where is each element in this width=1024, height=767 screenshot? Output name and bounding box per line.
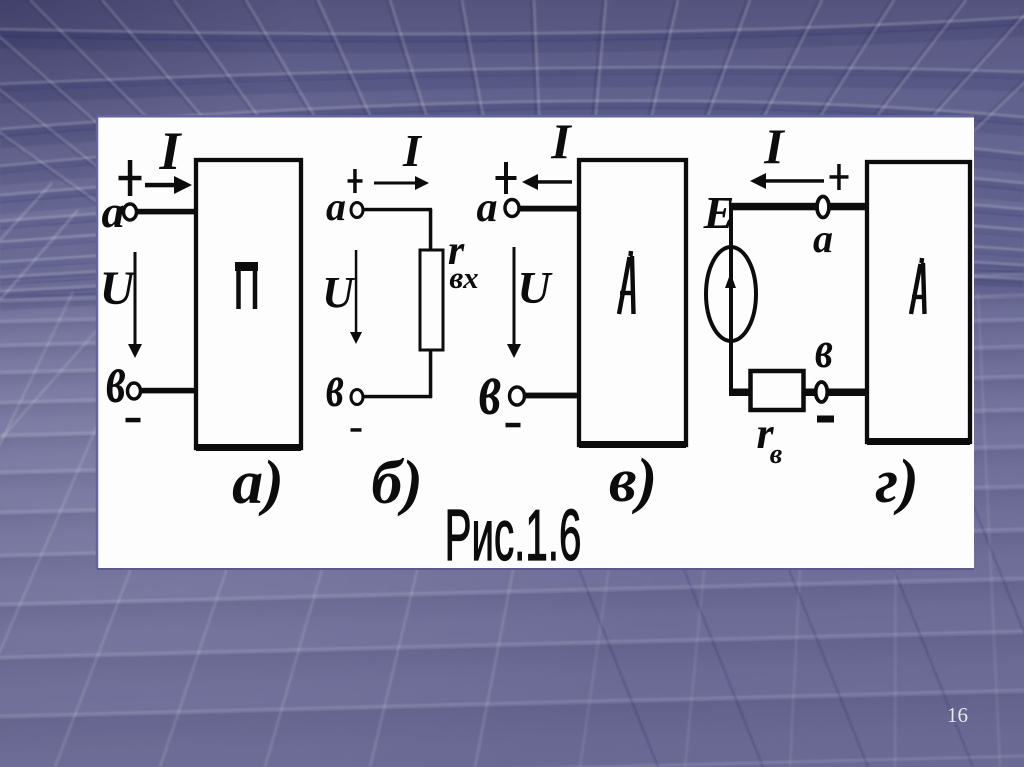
wire a to corner (б): [363, 208, 432, 212]
terminal circle a (в): [505, 200, 519, 217]
svg-text:в: в: [106, 340, 126, 418]
svg-text:I: I: [763, 118, 785, 174]
svg-text:U: U: [322, 268, 356, 317]
amplifier box A (г): [867, 162, 970, 442]
terminal circle в (г): [816, 382, 828, 402]
left wire E down (г): [729, 207, 733, 392]
circuit a) converter box П: [196, 160, 301, 448]
voltage arrow down (в): [513, 247, 516, 344]
plus sign (г): [830, 175, 849, 179]
white panel: [97, 115, 974, 570]
wire resistor to corner (б): [429, 350, 433, 398]
resistor r_в: [751, 371, 804, 410]
svg-text:I: I: [402, 125, 423, 176]
svg-text:I: I: [158, 121, 182, 181]
resistor r_вх: [420, 250, 443, 350]
svg-text:Рис.1.6: Рис.1.6: [445, 496, 582, 576]
plus sign (в): [496, 176, 517, 180]
svg-text:в: в: [479, 347, 501, 431]
wire в to box (в): [524, 393, 581, 399]
svg-text:в: в: [326, 354, 344, 420]
wire в to corner (б): [363, 395, 432, 399]
wire resistor to circle (г): [803, 389, 817, 397]
letter П inside box: [239, 266, 256, 309]
dark bevel companions (ceiling radials): [0, 0, 1024, 292]
floor band shading: [0, 268, 1024, 767]
EMF arrow up: [729, 259, 732, 319]
svg-text:16: 16: [947, 703, 968, 727]
svg-text:в): в): [609, 447, 657, 515]
svg-text:U: U: [517, 262, 553, 313]
svg-text:a: a: [813, 216, 833, 261]
svg-text:г): г): [875, 448, 919, 516]
wire corner down to resistor (б): [429, 209, 433, 252]
letter A inside box (г): [911, 258, 925, 314]
svg-text:вх: вх: [449, 260, 478, 295]
terminal circle в (б): [351, 390, 363, 405]
current arrow right (a): [145, 183, 174, 188]
svg-text:a: a: [102, 186, 125, 237]
wire a to box (a): [136, 209, 198, 215]
current arrow left (г): [766, 179, 824, 183]
wire a to box (в): [519, 206, 581, 212]
bottom wire to resistor (г): [729, 389, 753, 397]
minus sign (a): [126, 418, 141, 423]
svg-text:U: U: [100, 262, 137, 315]
ceiling grid: [0, 0, 1024, 300]
svg-text:в: в: [815, 322, 833, 379]
terminal circle a (a): [124, 204, 137, 220]
floor grid: [0, 274, 1024, 767]
plus sign (б): [348, 179, 363, 183]
minus sign (г): [817, 416, 834, 423]
current arrow right (б): [374, 182, 415, 185]
dark bevel diagonals (floor right): [468, 292, 1024, 767]
svg-text:а): а): [232, 449, 284, 517]
wire в to box (a): [140, 388, 198, 394]
top wire E to box (г): [729, 203, 869, 211]
EMF source E circle: [706, 247, 756, 341]
voltage arrow down (a): [134, 252, 137, 344]
terminal circle в (в): [510, 387, 525, 405]
wire circle to box (г): [828, 389, 869, 397]
svg-text:I: I: [550, 113, 572, 169]
svg-text:б): б): [371, 449, 423, 517]
current arrow left (в): [538, 180, 572, 184]
terminal circle a (б): [351, 203, 363, 218]
amplifier box A (в): [579, 160, 686, 445]
svg-text:a: a: [477, 185, 498, 231]
ceiling shading under lines: [0, 22, 1024, 304]
minus sign (в): [506, 423, 521, 428]
terminal circle a (г): [817, 197, 829, 218]
letter A inside box (в): [619, 251, 634, 314]
svg-text:a: a: [326, 184, 346, 229]
voltage arrow down (б): [355, 250, 358, 332]
svg-text:в: в: [770, 439, 783, 470]
terminal circle в (a): [128, 383, 141, 399]
plus sign (a): [119, 176, 142, 181]
minus sign (б): [351, 428, 362, 432]
